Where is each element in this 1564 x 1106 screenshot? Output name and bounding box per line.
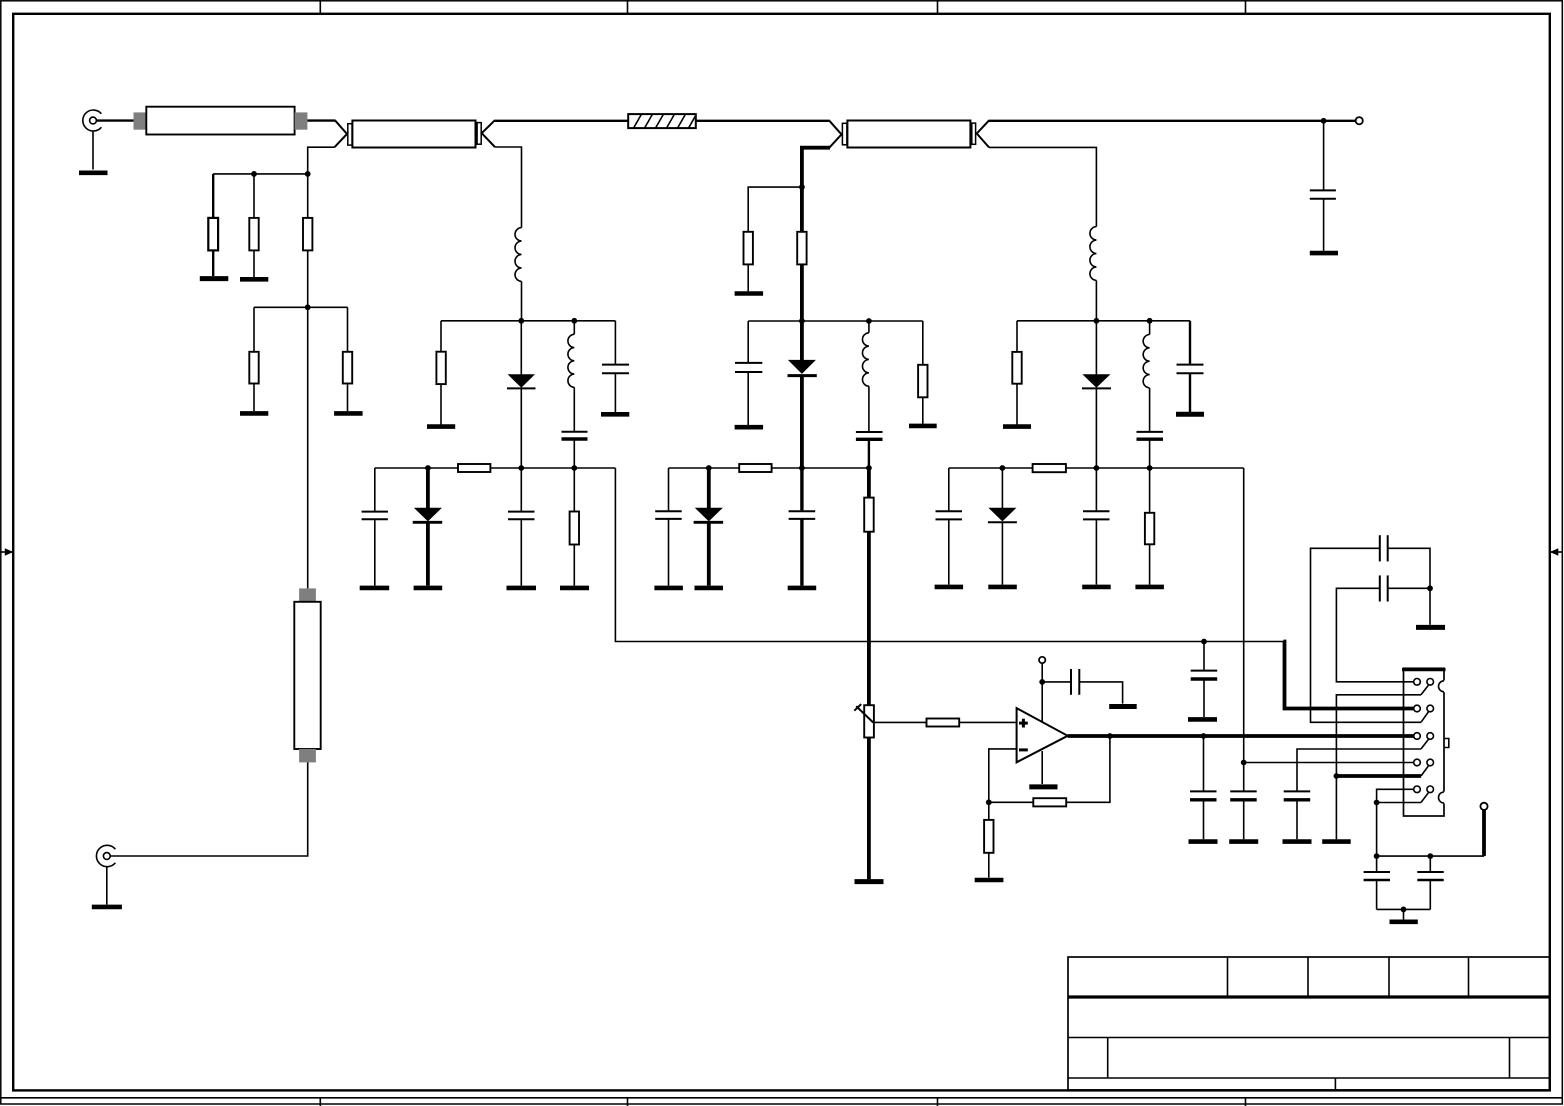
node A-bot-3 [571,465,577,471]
wire stage C bottom bus [949,467,1244,469]
left centre arrow [0,548,13,556]
filter FL2 body [294,602,320,749]
wire TL1 right tap to L-A [495,147,522,228]
wire TL2 right tap to L-C [989,147,1096,226]
node B-top-1 [799,318,805,324]
top zone tick 3 [937,0,939,14]
node A-bot-2 [518,465,524,471]
node C-bot-1 [1000,465,1006,471]
title block row1 divider 4 [1468,957,1470,997]
title block outline [1068,957,1550,1090]
title block line row3 bottom [1068,1077,1550,1079]
right centre arrow [1550,548,1563,556]
TL1 right coupling bar [477,123,481,145]
diode D-C2 [1082,374,1111,468]
diode D-A7 [413,468,443,586]
ground at C-R4 [1283,839,1312,844]
node A-top-2 [571,318,577,324]
ground at R-A1 [427,424,455,429]
ground at R-gain [975,878,1004,883]
node A-bot-1 [425,465,431,471]
connector pin row1 [1414,679,1434,695]
capacitor C-B3 [735,321,762,425]
filter FL1 left cap [134,112,147,129]
resistor R-B1 [744,232,753,291]
node CF junction [1427,585,1433,591]
top zone tick 2 [627,0,629,14]
ground at C-R2 [1189,839,1218,844]
wire L-C to stage C bus [1095,280,1097,374]
wire attenuator to TL2 [696,120,830,122]
node div-3 [305,304,311,310]
ground at C-R3 [1229,839,1258,844]
wire stage A top bus [441,320,615,322]
resistor R-B12 (to trimmer, bold) [864,468,874,706]
transmission line TL1 right chevron [482,120,495,147]
resistor R-C6 (series on bus) [1033,464,1066,472]
transmission line TL2 body [847,121,970,148]
ground at D-B10 [695,586,724,591]
node out-1 [1107,733,1113,739]
wire row4 feed [1244,762,1414,764]
ground at trimmer [855,879,884,884]
wire J1 to FL1 [97,119,135,121]
ground at C-C7 [935,585,964,590]
resistor R-A5 (series on bus) [458,464,490,472]
connector J2 (BNC, bottom left) [96,845,115,866]
ground at op-amp [1029,784,1057,789]
node C-bot-2 [1094,465,1100,471]
wire sense line to connector row2 (bold) [1283,642,1414,709]
resistor R-fb [1033,798,1066,806]
capacitor C-R1 (polarized) [1191,642,1218,718]
node div-2 [305,171,311,177]
wire CF junction to ground [1429,588,1431,625]
bottom zone tick 1 [319,1098,321,1106]
transmission line TL1 left chevron [335,121,348,148]
inductor L-C3 [1143,321,1149,431]
diode D-A1 [507,321,536,468]
title block row3 divider right [1509,1038,1511,1079]
resistor R-C1 [1012,321,1021,425]
diode D-B4 (bold) [788,360,817,468]
wire divider top rail [213,173,308,175]
capacitor C-A6 [362,468,388,586]
capacitor C-R3 (polarized) [1230,763,1257,840]
ground at bottom net [1390,919,1418,924]
node C-bot-3 [1147,465,1153,471]
TL2 right coupling bar [972,123,976,144]
node row4 tap [1241,760,1247,766]
trimmer P1 [854,704,874,737]
ground at C-A6 [360,586,390,591]
ground at rail [1322,839,1351,844]
ground at J1 [79,171,108,176]
node B-top-2 [866,318,872,324]
capacitor C-out (top right) [1310,190,1336,250]
title block row1 divider 3 [1388,957,1390,997]
wire L-A to stage A bus [521,281,523,320]
bottom zone line [0,1097,1562,1099]
ground at R-A9 [560,586,589,591]
TL1 left coupling bar [348,124,352,145]
capacitor C-X1 [1364,856,1390,909]
title block row3 divider left [1107,1038,1109,1079]
inductor L-A [515,228,521,282]
node sense-1 [1201,639,1207,645]
transmission line TL2 left chevron [829,121,841,148]
resistor R-D1 (bold) [208,174,218,276]
ground at R-B1 [735,291,764,296]
capacitor C-C7 [936,468,963,585]
wire stage C bus down to connector row4 [1243,468,1245,763]
inductor L-C [1090,227,1096,281]
ground at C-out [1310,251,1338,256]
resistor R-B2 (series on main) [797,232,806,265]
resistor R-D2 [249,174,258,277]
filter FL2 top cap [299,588,316,601]
capacitor C-B9 [655,468,682,586]
TL2 left coupling bar [842,123,847,145]
filter FL1 body [146,107,294,135]
resistor R-op (series to op-amp) [927,719,960,727]
wire junction to C-out [1323,121,1325,190]
capacitor C-C9 [1083,468,1110,585]
attenuator Z1 (hatched) [628,114,696,128]
wire stage B bottom bus [669,467,869,469]
resistor R-C10 [1145,468,1154,585]
terminal X1 (open circle, top right) [1356,117,1363,124]
connector notch bottom [1439,792,1446,804]
ground at D-A7 [414,586,443,591]
terminal supply (open circle) [1039,657,1045,663]
ground at C-sup [1109,704,1137,709]
capacitor C-F1 (series, top) [1311,535,1431,722]
connector pin row4 [1414,759,1434,776]
wire FL2 to J2 [111,762,308,856]
capacitor C-C5 [1177,321,1204,412]
wire caps common [1377,908,1431,910]
node C-top-2 [1147,318,1153,324]
wire common to ground [1403,909,1405,919]
connector pin row2 [1414,705,1434,722]
diode D-B10 (bold) [694,468,724,586]
wire wiper to R-op [874,721,927,723]
wire op-amp output (bold) [1068,734,1414,738]
wire stage C top bus [1017,320,1190,322]
wire TL2 to output terminal [989,120,1356,122]
title block heavy rule [1068,995,1550,998]
ground at R-D2 [240,277,268,282]
node fb [986,799,992,805]
wire connector row1 return to ground rail [1336,695,1421,839]
title block row4 divider [1334,1078,1336,1090]
wire TL1 to attenuator [495,120,629,122]
capacitor C-X2 [1417,856,1443,909]
connector notch top [1439,680,1446,692]
node top-right junction [1321,118,1327,124]
node B-bot-2 [799,465,805,471]
top zone tick 1 [319,0,321,14]
ground at C-R1 [1188,717,1217,722]
wire TL2 tap to stage B (bold) [802,148,830,188]
wire feedback loop [989,736,1110,802]
ground at R-C10 [1135,585,1164,590]
wire row3 return [1297,749,1421,791]
connector key tab [1444,739,1449,748]
wire op-amp V- pin [1041,751,1043,784]
capacitor C-A8 [508,468,535,586]
ground at R-C1 [1003,424,1031,429]
node div-1 [251,171,257,177]
node bottom net right [1427,853,1433,859]
filter FL1 right cap [295,112,308,129]
wire trimmer (bold) to ground [867,738,871,880]
wire row4 jumper (bold) [1336,774,1421,778]
wire main drop to FL2 [307,307,309,588]
resistor R-gain [984,802,993,877]
wire J2 ground stem [106,866,108,904]
bottom zone tick 2 [627,1098,629,1106]
title block row1 divider 1 [1227,957,1229,997]
ground at R-B7 [909,424,937,429]
connector pin row3 [1414,733,1434,749]
node row5 tie [1374,800,1380,806]
bottom zone tick 3 [937,1098,939,1106]
capacitor C-B6 (polarized) [856,432,883,468]
ground at R-D5 [334,411,363,416]
wire TL1 tap down-left [308,147,335,172]
resistor R-A1 [436,321,445,425]
resistor R-B8 (series on bus) [739,464,771,472]
capacitor C-R4 (polarized) [1284,791,1311,839]
resistor R-B7 [918,321,927,424]
wire row5 jumper [1377,802,1421,804]
ground at CF [1416,625,1445,630]
ground at C-C5 [1176,412,1204,417]
transmission line TL2 right chevron [977,120,989,147]
wire stage B main (bold) [800,186,804,361]
ground at J2 [92,905,122,910]
inductor L-B5 [862,321,868,431]
node out-2 [1201,733,1207,739]
op-amp U1 [1017,708,1068,762]
ground at R-D4 [240,411,268,416]
wire stage A bus down to sense line [615,468,1284,642]
resistor R-A9 [570,468,579,586]
title block line row3 top [1068,1037,1550,1039]
node bottom net left [1374,853,1380,859]
ground at C-B9 [654,586,683,591]
title block row1 divider 2 [1307,957,1309,997]
node A-top-1 [518,318,524,324]
capacitor C-B11 [789,468,816,586]
capacitor C-A3 (polarized) [562,432,588,468]
capacitor C-C4 (polarized) [1137,432,1164,468]
resistor R-D5 [343,307,352,411]
connector J1 (BNC, top left) [83,110,102,131]
node ground rail tap [1334,773,1340,779]
resistor R-D4 [249,307,258,411]
terminal X2 (open circle) [1480,803,1487,810]
capacitor C-A4 [602,321,629,412]
transmission line TL1 body [352,121,475,148]
ground at C-A8 [507,586,537,591]
ground at C-C9 [1082,585,1111,590]
wire B-feed left [748,187,802,232]
connector SV1 body [1402,668,1446,816]
wire stage A bottom bus [375,467,616,469]
node C-top-1 [1094,318,1100,324]
ground at C-B11 [788,586,817,591]
node caps common [1401,907,1407,913]
wire row5 feed [1377,789,1414,856]
capacitor C-sup (horizontal) [1042,669,1122,704]
capacitor C-R2 (polarized) [1190,736,1217,839]
ground at C-B3 [735,425,764,430]
wire FL1 to TL1 [307,119,335,121]
node B-bot-3 [866,465,872,471]
node B-bot-1 [706,465,712,471]
filter FL2 bottom cap [299,749,316,762]
wire op-amp V+ pin [1041,663,1043,721]
node B-feed [799,184,805,190]
wire divider second rail [254,306,348,308]
top zone tick 4 [1245,0,1247,14]
bottom zone tick 4 [1245,1098,1247,1106]
ground at D-C8 [988,585,1017,590]
ground at C-A4 [601,412,629,417]
capacitor C-F2 (series, lower) [1336,575,1430,681]
wire R-op to op-amp [959,721,1016,723]
wire bottom net rail [1377,855,1484,857]
inductor L-A2 [568,321,574,431]
resistor R-D3 (series on main drop) [303,173,312,309]
connector pin row5 [1414,786,1434,803]
node supply [1039,679,1045,685]
wire stage B top bus [748,320,923,322]
ground at R-D1 [200,276,229,281]
wire terminal stub (bold) [1482,810,1486,856]
wire J1 ground stem [92,131,94,170]
diode D-C8 [988,468,1017,585]
